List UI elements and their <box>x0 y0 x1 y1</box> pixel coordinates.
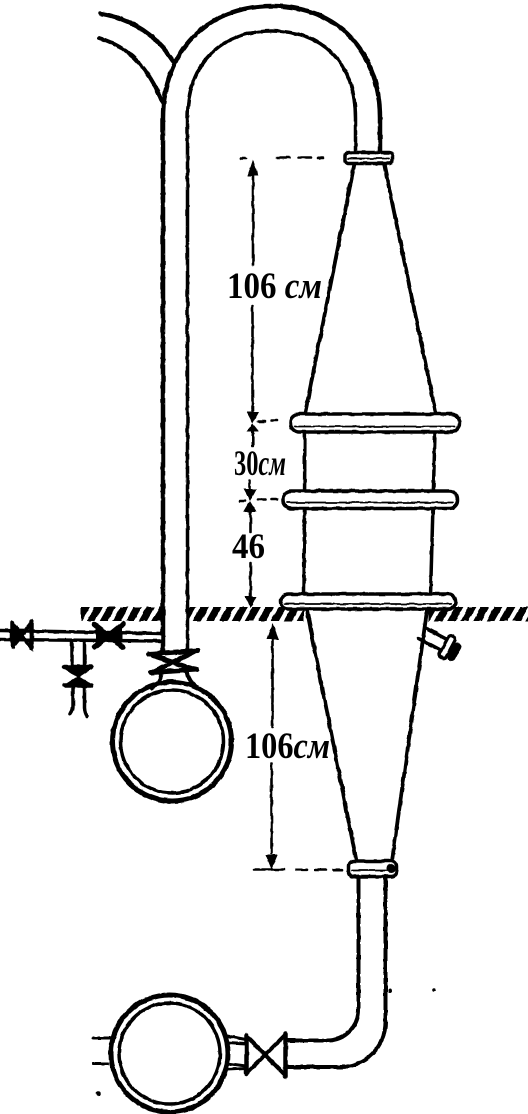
svg-text:30см: 30см <box>234 443 286 483</box>
svg-text:106см: 106см <box>245 726 330 767</box>
svg-text:106 см: 106 см <box>227 266 322 307</box>
svg-text:46: 46 <box>232 526 265 566</box>
